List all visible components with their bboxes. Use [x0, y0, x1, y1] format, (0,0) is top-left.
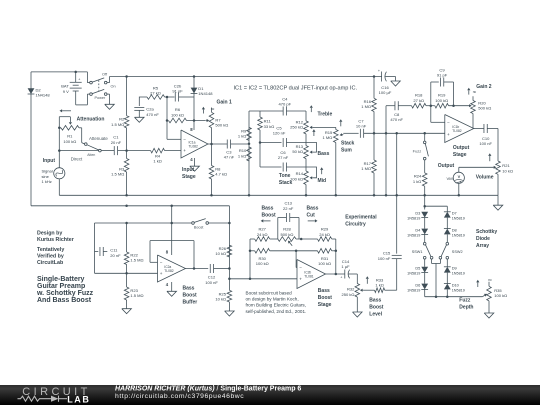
ground IC1a pin4: [194, 158, 196, 166]
resistor R24 1k: [424, 160, 426, 173]
resistor R18 27k: [412, 103, 427, 108]
ground C16: [395, 77, 397, 82]
ground output rail: [497, 195, 499, 205]
svg-text:1N5819: 1N5819: [407, 272, 420, 276]
wire D7 D8: [446, 218, 448, 229]
svg-text:Boost: Boost: [369, 305, 384, 311]
capacitor C7 10nF: [359, 129, 361, 138]
wire to volume pot: [497, 129, 499, 162]
svg-text:91 pF: 91 pF: [437, 73, 448, 78]
diode D10 1N5819: [444, 283, 451, 285]
op-amp IC2a TL082: [158, 255, 186, 282]
resistor R8 4.7k: [211, 144, 213, 166]
wire line3 C11 R22 boost: [95, 222, 192, 224]
potentiometer R28 500k: [278, 237, 296, 242]
node R19 right junction: [452, 104, 455, 107]
svg-text:Input: Input: [182, 167, 195, 173]
svg-text:1.5 MΩ: 1.5 MΩ: [130, 258, 143, 263]
svg-text:LAB: LAB: [67, 394, 90, 404]
node plus wire junction: [228, 278, 231, 281]
svg-text:1 kΩ: 1 kΩ: [153, 159, 161, 164]
node input source tap: [58, 149, 61, 152]
node R11 bottom: [259, 141, 262, 144]
svg-text:1 µF: 1 µF: [341, 264, 350, 269]
svg-text:22 nF: 22 nF: [283, 206, 294, 211]
node R18 R19 junction: [430, 104, 433, 107]
svg-text:Array: Array: [476, 243, 489, 249]
svg-text:Stage: Stage: [182, 174, 196, 180]
potentiometer R20 500k gain2: [472, 96, 474, 100]
potentiometer R14 100k mid: [305, 167, 307, 171]
capacitor C10 100nF: [483, 124, 485, 133]
wire bus2 rail: [31, 205, 229, 207]
gang link dashed: [98, 80, 100, 90]
svg-text:Bass: Bass: [183, 286, 195, 292]
diode D6 1N5819: [421, 284, 428, 290]
svg-text:27 kΩ: 27 kΩ: [413, 98, 424, 103]
svg-text:20 nF: 20 nF: [111, 140, 122, 145]
node IC2b output feedback: [335, 273, 338, 276]
svg-text:BAT: BAT: [61, 83, 69, 88]
potentiometer R1 100k attenuation: [58, 117, 60, 151]
svg-text:D3: D3: [415, 211, 420, 216]
svg-text:TL082: TL082: [452, 129, 462, 133]
svg-text:Schottky: Schottky: [476, 229, 497, 235]
svg-text:Mid: Mid: [318, 178, 327, 184]
resistor R17 1M: [373, 133, 375, 160]
svg-text:+: +: [447, 132, 450, 137]
svg-text:Tone: Tone: [279, 173, 291, 179]
wire D3 D4: [424, 218, 426, 229]
svg-text:D8: D8: [452, 227, 457, 232]
svg-text:27 kΩ: 27 kΩ: [150, 91, 161, 96]
svg-text:On: On: [111, 84, 116, 88]
capacitor C12 100nF: [209, 264, 211, 273]
resistor R22 1.5M: [126, 223, 128, 252]
potentiometer R32 250k bass boost level: [355, 284, 360, 298]
svg-text:Stack: Stack: [341, 141, 355, 147]
node boost divider tap: [249, 278, 252, 281]
resistor R3 1.5M: [126, 151, 128, 159]
capacitor C16 100uF: [381, 72, 383, 82]
switch SW1 On/Off upper: [86, 72, 88, 83]
wire treble wiper to stack sum: [314, 126, 336, 128]
footer logo LAB: [67, 394, 90, 404]
diode D8 1N5819: [444, 228, 451, 230]
wire D8 to SSW2: [446, 234, 448, 242]
diode D3 1N5819: [421, 212, 428, 218]
wire minus input IC1b: [430, 106, 432, 123]
svg-text:w. Schottky Fuzz: w. Schottky Fuzz: [36, 290, 94, 297]
ground R35: [484, 313, 494, 318]
svg-text:SSW1: SSW1: [412, 250, 423, 254]
svg-text:Bass: Bass: [307, 205, 319, 211]
capacitor C6 27nF: [260, 166, 282, 168]
svg-text:Diode: Diode: [476, 236, 490, 242]
wire IC2a plus input: [95, 272, 158, 274]
svg-text:+: +: [78, 78, 80, 82]
svg-text:D4: D4: [415, 227, 421, 232]
svg-text:24 kΩ: 24 kΩ: [257, 232, 268, 237]
resistor R11 33k: [259, 111, 261, 117]
svg-text:8: 8: [166, 250, 169, 255]
svg-text:Direct: Direct: [71, 157, 83, 162]
svg-text:TL082: TL082: [164, 269, 174, 273]
source V1 signal input: [58, 151, 60, 168]
node C8 branch tap: [385, 132, 388, 135]
capacitor C15 100nF: [392, 254, 402, 256]
node fuzz switch tap: [423, 132, 426, 135]
svg-text:Boost subcircuit based: Boost subcircuit based: [246, 290, 293, 295]
node D1 bottom R6 wire: [193, 119, 196, 122]
svg-text:100 nF: 100 nF: [205, 280, 218, 285]
svg-text:Stage: Stage: [453, 152, 467, 158]
svg-text:Single-Battery: Single-Battery: [37, 276, 85, 283]
switch fuzz: [424, 133, 426, 141]
svg-text:+: +: [183, 148, 186, 153]
svg-text:10 kΩ: 10 kΩ: [215, 297, 226, 302]
svg-text:Fuzz: Fuzz: [413, 149, 422, 154]
svg-text:HARRISON RICHTER (Kurtus) / Si: HARRISON RICHTER (Kurtus) / Single-Batte…: [115, 385, 301, 392]
svg-text:1N5819: 1N5819: [452, 272, 465, 276]
resistor R10 1k: [247, 147, 252, 161]
svg-text:Level: Level: [369, 312, 382, 318]
ground C2a: [135, 117, 145, 122]
svg-text:4: 4: [166, 282, 169, 287]
wire tone stack top: [249, 110, 283, 112]
svg-text:1 kΩ: 1 kΩ: [375, 283, 383, 288]
wire C14 to R32: [356, 274, 358, 284]
resistor R9 1k: [247, 127, 252, 140]
wire C15 branch vertical: [396, 133, 398, 253]
svg-text:1N4148: 1N4148: [198, 91, 213, 96]
svg-text:+: +: [299, 276, 302, 281]
svg-text:Kurtus Richter: Kurtus Richter: [37, 237, 74, 243]
wire feedback vertical to minus input: [166, 97, 168, 139]
svg-text:470 nF: 470 nF: [390, 117, 403, 122]
svg-text:from Building Electric Guitars: from Building Electric Guitars,: [246, 303, 307, 308]
svg-text:4: 4: [190, 157, 193, 162]
footer logo resistor diode glyph: [18, 396, 68, 402]
svg-text:Sum: Sum: [341, 148, 352, 154]
node C15 branch tap: [395, 132, 398, 135]
wire output line: [459, 166, 494, 168]
wire SSW1 to D5: [424, 259, 426, 267]
op-amp IC1a TL082: [181, 130, 208, 158]
op-amp IC1b TL082: [445, 115, 474, 143]
ground R25: [225, 311, 235, 316]
svg-text:100 kΩ: 100 kΩ: [435, 98, 448, 103]
svg-text:D10: D10: [452, 282, 460, 287]
svg-text:nc: nc: [473, 90, 477, 94]
switch SSW2: [446, 242, 449, 245]
potentiometer R35 100k fuzz depth: [482, 295, 484, 296]
svg-text:250 kΩ: 250 kΩ: [341, 292, 354, 297]
svg-text:Gain 2: Gain 2: [476, 84, 492, 90]
resistor R26 10k: [227, 245, 232, 257]
svg-text:100 nF: 100 nF: [378, 256, 391, 261]
diode D2 (left rail): [30, 72, 32, 206]
svg-text:1.5 MΩ: 1.5 MΩ: [130, 293, 143, 298]
node R28 right: [300, 238, 303, 241]
diode D1 1N4148: [193, 77, 195, 131]
capacitor C3 47nF: [226, 140, 228, 149]
resistor R25 10k: [228, 279, 230, 291]
resistor R6 100k: [169, 118, 187, 123]
node R16 R17 bias tap: [373, 132, 376, 135]
diode D4 1N5819: [421, 229, 428, 235]
svg-text:Guitar Preamp: Guitar Preamp: [37, 283, 85, 290]
svg-text:Gain 1: Gain 1: [217, 100, 233, 106]
svg-text:Stage: Stage: [318, 302, 332, 308]
wire bypass bridge: [432, 263, 441, 265]
node battery top junction: [74, 71, 77, 74]
svg-text:Boost: Boost: [194, 226, 205, 230]
svg-text:D9: D9: [452, 266, 457, 271]
svg-text:SSW2: SSW2: [452, 250, 463, 254]
svg-text:Attenuate: Attenuate: [89, 136, 108, 141]
wire diode array bottom rail: [425, 296, 483, 298]
resistor R30 100k: [250, 250, 255, 252]
svg-text:50 kΩ: 50 kΩ: [292, 149, 303, 154]
svg-text:+: +: [340, 276, 342, 280]
svg-text:1 MΩ: 1 MΩ: [361, 104, 371, 109]
node C12 junction: [228, 267, 231, 270]
svg-text:470 pF: 470 pF: [278, 102, 291, 107]
svg-text:Stack: Stack: [279, 180, 293, 186]
capacitor C8 470nF: [386, 105, 395, 107]
svg-text:CircuitLab: CircuitLab: [37, 260, 64, 266]
svg-text:Input: Input: [43, 158, 56, 164]
footer url text: [115, 393, 244, 400]
op-amp IC2b TL081: [297, 260, 326, 289]
svg-text:33 kΩ: 33 kΩ: [264, 124, 275, 129]
capacitor C2b 91pF: [174, 93, 176, 102]
svg-text:−: −: [299, 265, 302, 270]
svg-text:100 kΩ: 100 kΩ: [256, 261, 269, 266]
svg-text:+: +: [160, 271, 163, 276]
wire D9 D10: [446, 273, 448, 284]
footer title text: [115, 385, 301, 392]
svg-text:D5: D5: [415, 266, 420, 271]
capacitor C2a 470nF: [139, 97, 147, 106]
wire R11 to C6 row: [259, 143, 261, 168]
wire IC1b output: [474, 128, 484, 130]
wire feedback right vertical: [335, 239, 337, 274]
svg-text:100 µF: 100 µF: [379, 90, 392, 95]
wire D5 D6: [424, 273, 426, 284]
svg-text:1N5819: 1N5819: [452, 288, 465, 292]
wire minus input IC2b: [295, 251, 297, 268]
capacitor C9 91pF parallel box: [430, 82, 432, 106]
switch SSW1: [423, 242, 426, 245]
svg-text:1N5819: 1N5819: [407, 217, 420, 221]
diode D7 1N5819: [444, 211, 451, 213]
svg-text:Circuitry: Circuitry: [345, 221, 366, 227]
svg-text:Attenuation: Attenuation: [77, 117, 105, 123]
svg-text:20 nF: 20 nF: [110, 253, 121, 258]
resistor R4 1k: [151, 148, 165, 153]
resistor R16 1M: [373, 77, 375, 99]
svg-text:self-published, 2nd Ed., 2001.: self-published, 2nd Ed., 2001.: [246, 309, 307, 314]
svg-text:Off: Off: [102, 72, 108, 76]
svg-text:TL081: TL081: [304, 275, 314, 279]
wire D6 to rail: [424, 289, 426, 296]
diode D9 1N5819: [444, 266, 451, 268]
wire battery bottom: [76, 104, 88, 106]
svg-text:1.5 MΩ: 1.5 MΩ: [111, 122, 124, 127]
voltmeter VM: [458, 167, 460, 172]
svg-text:Design by: Design by: [37, 231, 62, 237]
svg-text:Output: Output: [453, 145, 470, 151]
wire bus1 main rail: [59, 194, 498, 196]
switch Atten: [85, 143, 88, 146]
svg-text:1N5819: 1N5819: [452, 217, 465, 221]
svg-text:100 kΩ: 100 kΩ: [63, 139, 76, 144]
wire IC2a supply rail: [171, 206, 173, 255]
svg-text:D6: D6: [415, 282, 420, 287]
svg-text:9 V: 9 V: [63, 89, 69, 94]
svg-text:Atten: Atten: [87, 153, 95, 157]
capacitor C13 22nF parallel: [277, 218, 279, 240]
svg-text:100 kΩ: 100 kΩ: [318, 261, 331, 266]
svg-text:−: −: [183, 137, 186, 142]
wire IC2b plus input line: [229, 278, 297, 280]
resistor R23 1.5M: [126, 273, 128, 287]
svg-text:500 kΩ: 500 kΩ: [215, 123, 228, 128]
svg-text:VM: VM: [447, 176, 454, 181]
wire C8 branch vertical: [385, 106, 387, 196]
svg-text:100 kΩ: 100 kΩ: [494, 293, 507, 298]
svg-text:100 nF: 100 nF: [479, 141, 492, 146]
wire SSW2 to D9: [446, 259, 448, 267]
resistor R29 24k: [318, 237, 332, 242]
potentiometer R7 500k gain1: [211, 108, 213, 113]
svg-text:120 nF: 120 nF: [273, 131, 286, 136]
potentiometer R12 250k treble: [305, 111, 307, 121]
svg-text:Depth: Depth: [459, 305, 473, 311]
node R6 left: [166, 119, 169, 122]
svg-text:24 kΩ: 24 kΩ: [319, 232, 330, 237]
svg-text:−: −: [447, 120, 450, 125]
svg-text:http://circuitlab.com/c3796pue: http://circuitlab.com/c3796pue46bwc: [115, 393, 244, 400]
capacitor C5 120nF: [260, 142, 282, 144]
ground R32: [353, 312, 363, 317]
resistor R5 27k: [147, 95, 165, 100]
svg-text:Volume: Volume: [476, 175, 494, 181]
svg-text:Boost: Boost: [183, 293, 198, 299]
resistor R33 1k: [364, 289, 375, 291]
svg-text:Boost: Boost: [262, 212, 277, 218]
svg-text:470 nF: 470 nF: [146, 112, 159, 117]
svg-text:Experimental: Experimental: [345, 214, 377, 220]
svg-text:4.7 kΩ: 4.7 kΩ: [215, 172, 227, 177]
wire tone stack input rail: [248, 111, 250, 195]
footer logo circuit: [22, 386, 90, 398]
ground power switch: [105, 104, 115, 109]
node C3 to R9 R10: [248, 142, 251, 145]
svg-text:Treble: Treble: [318, 112, 333, 118]
svg-text:Cut: Cut: [307, 212, 316, 218]
svg-text:Output: Output: [438, 163, 455, 169]
svg-text:Bass: Bass: [318, 151, 330, 157]
svg-text:1 kΩ: 1 kΩ: [238, 153, 246, 158]
potentiometer R13 50k bass: [305, 143, 307, 146]
node R5 C2b junction: [166, 96, 169, 99]
svg-text:250 kΩ: 250 kΩ: [290, 125, 303, 130]
svg-text:10 kΩ: 10 kΩ: [215, 251, 226, 256]
svg-text:1N5819: 1N5819: [407, 288, 420, 292]
node R31 right: [335, 250, 338, 253]
svg-text:nc: nc: [211, 107, 215, 111]
svg-text:V: V: [458, 174, 461, 179]
svg-text:on design by Martin Koch,: on design by Martin Koch,: [246, 297, 299, 302]
resistor R2 1.5M: [126, 77, 128, 116]
svg-text:100 kΩ: 100 kΩ: [171, 112, 184, 117]
switch boost: [192, 222, 195, 225]
svg-text:1 kΩ: 1 kΩ: [413, 179, 421, 184]
wire IC2b output: [326, 273, 345, 275]
diode D5 1N5819: [421, 267, 428, 273]
svg-text:500 kΩ: 500 kΩ: [281, 232, 294, 237]
svg-text:Bass: Bass: [369, 298, 381, 304]
svg-text:And Bass Boost: And Bass Boost: [37, 297, 92, 304]
svg-text:27 nF: 27 nF: [278, 155, 289, 160]
svg-text:Verified by: Verified by: [37, 254, 64, 260]
ground R23: [122, 309, 132, 314]
wire boost ladder left vertical: [249, 239, 251, 279]
svg-text:IC1 = IC2 = TL802CP dual JFET-: IC1 = IC2 = TL802CP dual JFET-input op-a…: [234, 85, 358, 91]
wire IC2a feedback loop: [150, 261, 158, 263]
wire D4 to SSW1: [424, 234, 426, 242]
wire input line left: [59, 150, 98, 152]
capacitor C11 20nF: [94, 223, 96, 273]
svg-text:Tentatively: Tentatively: [37, 247, 64, 253]
svg-text:Boost: Boost: [318, 295, 333, 301]
ground IC2a pin4: [171, 282, 173, 291]
svg-text:10 kΩ: 10 kΩ: [502, 168, 513, 173]
svg-text:TL082: TL082: [189, 145, 199, 149]
svg-text:Fuzz: Fuzz: [459, 298, 471, 304]
battery BAT 9V: [75, 72, 77, 82]
node feedback output: [193, 267, 196, 270]
wire IC2a output: [186, 268, 209, 270]
svg-text:1N5819: 1N5819: [452, 233, 465, 237]
capacitor C1 20nF: [101, 150, 114, 152]
svg-text:10 nF: 10 nF: [356, 124, 367, 129]
svg-text:91 pF: 91 pF: [172, 88, 183, 93]
node array jog: [423, 205, 426, 208]
svg-text:1 MΩ: 1 MΩ: [323, 135, 333, 140]
capacitor C14 1uF electrolytic: [344, 270, 346, 279]
node output R8 tap: [210, 143, 213, 146]
capacitor C4 470pF: [282, 107, 284, 116]
svg-text:+: +: [378, 69, 380, 73]
svg-text:1 kΩ: 1 kΩ: [238, 134, 246, 139]
wire V+ rail: [110, 76, 382, 78]
svg-text:1N4148: 1N4148: [36, 93, 51, 98]
potentiometer R21 10k volume: [496, 161, 501, 174]
svg-text:8: 8: [190, 127, 193, 132]
svg-text:1 kHz: 1 kHz: [42, 179, 52, 184]
switch SW2 Power lower: [86, 94, 88, 105]
resistor R19 100k: [435, 103, 449, 108]
wire R26 branch vertical: [228, 206, 230, 279]
node R30 minus junction: [295, 250, 298, 253]
wire diode array top: [424, 195, 426, 209]
svg-text:1.5 MΩ: 1.5 MΩ: [111, 172, 124, 177]
node R22 plus input: [125, 272, 128, 275]
